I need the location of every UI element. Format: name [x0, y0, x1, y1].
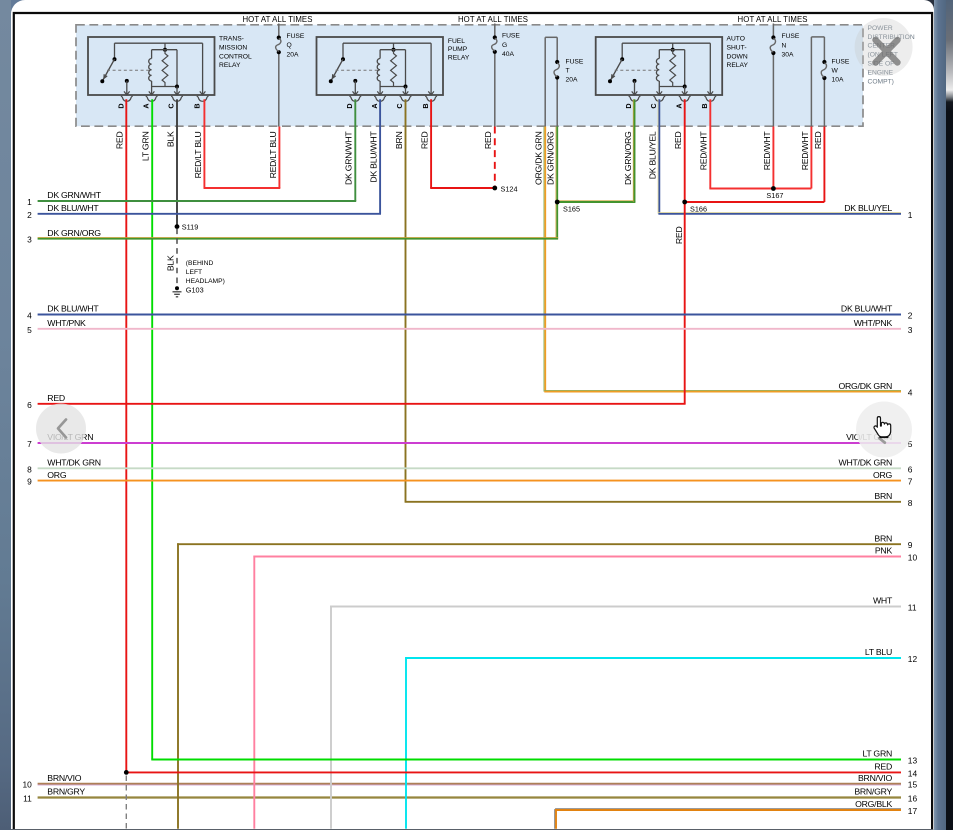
wire LT GRN relay1 pin A vertical [151, 99, 153, 759]
splice S119 [175, 224, 180, 229]
svg-text:16: 16 [908, 793, 918, 803]
dashed stub below red junction [125, 776, 127, 829]
svg-text:LT GRN: LT GRN [862, 749, 892, 759]
svg-text:CONTROL: CONTROL [219, 53, 252, 60]
right row 11 WHT [330, 606, 332, 829]
left row 7 VIO/LT GRN [38, 442, 901, 444]
wire BLK dashed to ground [176, 229, 178, 287]
svg-text:RED/LT BLU: RED/LT BLU [268, 132, 278, 179]
svg-text:DK GRN/WHT: DK GRN/WHT [47, 190, 101, 200]
svg-text:12: 12 [908, 654, 918, 664]
left row 8 WHT/DK GRN [38, 467, 901, 469]
svg-text:A: A [370, 103, 379, 108]
svg-text:BRN: BRN [874, 533, 892, 543]
svg-text:WHT/PNK: WHT/PNK [854, 318, 893, 328]
svg-text:HOT AT ALL TIMES: HOT AT ALL TIMES [242, 15, 312, 24]
svg-text:RELAY: RELAY [448, 54, 470, 61]
svg-text:RED: RED [483, 132, 493, 150]
svg-text:G103: G103 [186, 286, 204, 295]
svg-text:RED: RED [874, 762, 892, 772]
power distribution center box (PDC) [76, 25, 863, 126]
svg-text:MISSION: MISSION [219, 44, 247, 51]
wire RED relay3 pin A through S166 down to row 6 [684, 99, 686, 404]
ground G103 [175, 286, 179, 290]
fuse Q 20A [278, 24, 280, 38]
svg-text:B: B [421, 103, 430, 108]
svg-text:14: 14 [908, 768, 918, 778]
svg-text:BRN/VIO: BRN/VIO [858, 773, 892, 783]
wire BLK relay1 pin C vertical [176, 99, 178, 226]
svg-text:BRN/VIO: BRN/VIO [47, 773, 81, 783]
svg-text:SHUT-: SHUT- [727, 44, 747, 51]
svg-text:1: 1 [908, 210, 913, 220]
svg-text:COMPT): COMPT) [868, 79, 894, 86]
wire RED S166 run to fuse W output [685, 201, 825, 203]
svg-text:D: D [117, 103, 126, 108]
svg-text:DK BLU/YEL: DK BLU/YEL [648, 131, 658, 179]
svg-text:AUTO: AUTO [727, 36, 745, 43]
right row 10 PNK [253, 556, 255, 829]
svg-text:4: 4 [27, 311, 32, 321]
svg-text:WHT/PNK: WHT/PNK [47, 318, 86, 328]
svg-text:2: 2 [908, 311, 913, 321]
svg-text:2: 2 [27, 210, 32, 220]
wire RED/WHT fuse N down to S167 [772, 127, 774, 189]
svg-text:LEFT: LEFT [186, 269, 202, 276]
svg-text:3: 3 [27, 235, 32, 245]
svg-text:S124: S124 [501, 184, 518, 193]
svg-text:RED: RED [47, 393, 65, 403]
svg-text:DK GRN/ORG: DK GRN/ORG [47, 228, 101, 238]
svg-text:ORG: ORG [47, 470, 67, 480]
svg-text:8: 8 [27, 464, 32, 474]
svg-text:FUEL: FUEL [448, 38, 465, 45]
svg-text:(BEHIND: (BEHIND [186, 260, 214, 267]
hand cursor circle right [856, 402, 912, 458]
svg-text:DK GRN/ORG: DK GRN/ORG [546, 131, 556, 185]
svg-text:G: G [502, 42, 507, 49]
svg-text:5: 5 [27, 325, 32, 335]
svg-text:9: 9 [27, 477, 32, 487]
wire DK BLU/YEL relay3 pin C to right row 1 [658, 99, 660, 214]
fuse W 10A (loop fed) [810, 37, 812, 127]
svg-text:RELAY: RELAY [219, 62, 241, 69]
svg-text:HOT AT ALL TIMES: HOT AT ALL TIMES [738, 15, 808, 24]
fuse T 20A (loop fed) [544, 37, 546, 126]
wire RED bottom row 14 [125, 771, 901, 773]
svg-text:13: 13 [908, 756, 918, 766]
svg-text:N: N [782, 42, 787, 49]
svg-text:RED: RED [115, 132, 125, 150]
left row 9 ORG [38, 480, 901, 482]
svg-text:DK BLU/WHT: DK BLU/WHT [47, 203, 99, 213]
svg-text:RED: RED [420, 132, 430, 150]
svg-text:4: 4 [908, 388, 913, 398]
svg-text:ORG/DK GRN: ORG/DK GRN [839, 381, 893, 391]
hand cursor pointer [874, 417, 891, 438]
svg-text:11: 11 [908, 603, 917, 613]
svg-text:10A: 10A [832, 77, 844, 84]
svg-text:PNK: PNK [875, 546, 893, 556]
svg-text:11: 11 [23, 793, 32, 803]
svg-text:S165: S165 [563, 205, 580, 214]
svg-text:30A: 30A [782, 52, 794, 59]
svg-text:7: 7 [908, 477, 913, 487]
svg-text:D: D [345, 103, 354, 108]
svg-text:RELAY: RELAY [727, 62, 749, 69]
fuel pump relay (relay box) [317, 37, 444, 109]
svg-text:8: 8 [908, 498, 913, 508]
svg-text:C: C [167, 103, 176, 108]
svg-text:RED/WHT: RED/WHT [800, 131, 810, 171]
bottom window edge [11, 829, 934, 830]
svg-text:10: 10 [22, 780, 32, 790]
fuse N 30A [772, 24, 774, 38]
junction dot red row14 [124, 770, 129, 775]
svg-text:HOT AT ALL TIMES: HOT AT ALL TIMES [458, 15, 528, 24]
transmission control relay (relay box) [88, 37, 215, 109]
svg-text:FUSE: FUSE [782, 33, 800, 40]
svg-text:S119: S119 [182, 222, 199, 231]
svg-text:A: A [674, 103, 683, 108]
svg-text:Q: Q [287, 42, 292, 49]
left row 5 WHT/PNK [38, 328, 901, 330]
svg-text:ORG/DK GRN: ORG/DK GRN [534, 132, 544, 186]
svg-text:BRN: BRN [874, 491, 892, 501]
svg-text:RED/LT BLU: RED/LT BLU [193, 132, 203, 179]
svg-text:WHT: WHT [873, 596, 893, 606]
svg-text:DOWN: DOWN [727, 53, 748, 60]
svg-text:6: 6 [908, 464, 913, 474]
svg-text:15: 15 [908, 780, 918, 790]
svg-text:6: 6 [27, 400, 32, 410]
svg-text:RED: RED [673, 132, 683, 150]
splice S124 [492, 186, 497, 191]
svg-text:B: B [192, 103, 201, 108]
svg-text:RED/WHT: RED/WHT [699, 131, 709, 171]
wire RED dashed from fuse G to S124 [494, 127, 496, 189]
svg-text:DK BLU/WHT: DK BLU/WHT [841, 304, 893, 314]
wire DK GRN/WHT relay2 pin D to left row 1 [354, 99, 356, 201]
svg-text:10: 10 [908, 553, 918, 563]
svg-text:S166: S166 [690, 205, 707, 214]
wire RED/WHT fuse W loop down to S167 [810, 127, 812, 189]
wire DK BLU/WHT relay2 pin A to left row 2 [379, 99, 381, 214]
wire LT GRN bottom row 13 [151, 759, 901, 761]
auto shut-down relay (relay box) [596, 37, 723, 109]
svg-text:WHT/DK GRN: WHT/DK GRN [839, 458, 892, 468]
wire RED relay2 pin B to splice S124 [430, 99, 432, 188]
svg-text:17: 17 [908, 806, 918, 816]
right row 17 ORG/BLK [555, 809, 557, 829]
splice S167 [771, 186, 776, 191]
svg-text:S167: S167 [766, 191, 783, 200]
svg-text:W: W [832, 68, 839, 75]
svg-text:7: 7 [27, 439, 32, 449]
svg-text:RED: RED [674, 227, 684, 245]
svg-text:9: 9 [908, 540, 913, 550]
left row 11 BRN/GRY [38, 796, 901, 798]
svg-text:B: B [700, 103, 709, 108]
watermark close X top right [855, 18, 913, 76]
svg-text:BRN/GRY: BRN/GRY [47, 787, 85, 797]
svg-text:C: C [649, 103, 658, 108]
svg-text:FUSE: FUSE [502, 33, 520, 40]
wire BRN relay2 pin C down to right row 8 [405, 99, 407, 502]
svg-text:ORG/BLK: ORG/BLK [855, 799, 892, 809]
svg-text:RED: RED [813, 132, 823, 150]
svg-text:HEADLAMP): HEADLAMP) [186, 278, 225, 285]
svg-text:TRANS-: TRANS- [219, 36, 244, 43]
svg-text:BRN: BRN [394, 132, 404, 150]
wire RED/LT BLU relay1 pin B loop to fuse Q [203, 99, 205, 188]
svg-text:D: D [624, 103, 633, 108]
svg-text:C: C [395, 103, 404, 108]
svg-text:T: T [566, 68, 570, 75]
fuse G 40A [494, 24, 496, 38]
svg-text:A: A [141, 103, 150, 108]
right row 12 LT BLU [405, 657, 407, 829]
svg-text:BLK: BLK [165, 255, 175, 271]
svg-text:LT GRN: LT GRN [141, 132, 151, 162]
svg-text:FUSE: FUSE [566, 58, 584, 65]
svg-text:WHT/DK GRN: WHT/DK GRN [47, 458, 100, 468]
svg-text:DK BLU/WHT: DK BLU/WHT [369, 131, 379, 183]
wire DK GRN/ORG from fuse T to S165 and row 3 [556, 127, 558, 239]
svg-text:20A: 20A [287, 51, 299, 58]
wire ORG/DK GRN from fuse T loop down to right row 4 [544, 127, 546, 392]
svg-text:DK GRN/WHT: DK GRN/WHT [344, 131, 354, 185]
svg-text:RED/WHT: RED/WHT [762, 131, 772, 171]
wire RED/WHT relay3 pin B to S167 [709, 99, 711, 188]
svg-text:3: 3 [908, 325, 913, 335]
splice S165 [555, 200, 560, 205]
svg-text:DK BLU/WHT: DK BLU/WHT [47, 304, 99, 314]
left row 4 DK BLU/WHT [38, 314, 901, 316]
splice S166 [682, 200, 687, 205]
right row 9 BRN [177, 543, 179, 829]
svg-text:FUSE: FUSE [287, 33, 305, 40]
nav circle left with chevron [36, 404, 86, 454]
svg-text:DK GRN/ORG: DK GRN/ORG [623, 131, 633, 185]
svg-text:40A: 40A [502, 51, 514, 58]
svg-text:DK BLU/YEL: DK BLU/YEL [844, 203, 892, 213]
svg-text:BRN/GRY: BRN/GRY [854, 787, 892, 797]
wire RED relay1 pin D vertical [125, 99, 127, 772]
svg-text:FUSE: FUSE [832, 58, 850, 65]
svg-text:1: 1 [27, 197, 32, 207]
svg-text:BLK: BLK [165, 131, 175, 147]
left row 10 BRN/VIO [38, 783, 901, 785]
svg-text:PUMP: PUMP [448, 46, 468, 53]
hand cursor shadow tail [879, 438, 885, 442]
svg-text:20A: 20A [566, 77, 578, 84]
svg-text:ORG: ORG [873, 470, 893, 480]
svg-text:LT BLU: LT BLU [865, 647, 892, 657]
